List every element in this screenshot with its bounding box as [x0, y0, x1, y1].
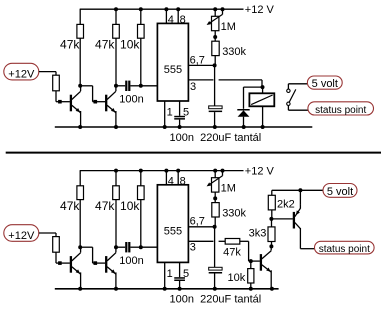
- wire Q4 base: [271, 218, 293, 220]
- wire pin6,7 (top): [188, 64, 214, 66]
- wire pin4 stub (top): [165, 9, 167, 23]
- wire 330k to pin6,7 node (bottom): [214, 217, 216, 227]
- wire rail to pot (top): [214, 9, 216, 16]
- wire Q2 emitter to ground (top): [115, 111, 117, 127]
- wire Q2 collector to 100n (bottom): [116, 246, 125, 248]
- wire 220uF to ground (bottom): [214, 274, 216, 289]
- wire base resistor to Q1 base (top): [56, 91, 70, 102]
- label pin 3 (bottom): [190, 242, 196, 254]
- wire Q2 collector node (top): [115, 86, 117, 87]
- diode flyback D1: [237, 109, 249, 127]
- wire pin4 stub (bottom): [165, 171, 167, 185]
- node status point (top): [308, 102, 374, 116]
- wire node to 555 pin2 (top): [141, 85, 158, 87]
- label +12 V (bottom): [245, 166, 275, 178]
- svg-text:6,7: 6,7: [190, 54, 205, 66]
- resistor 10k (bottom): [138, 171, 145, 248]
- label 10k (bottom): [120, 199, 140, 213]
- label 100n 220uF tantal caption (top): [170, 132, 262, 144]
- capacitor 100n coupling (top): [125, 81, 130, 91]
- junction pin5 ground (bottom): [178, 287, 182, 291]
- label 555 (bottom): [164, 226, 182, 238]
- transistor Q1 (bottom): [70, 249, 81, 275]
- resistor 47k output: [225, 239, 240, 245]
- wire Q2 collector node (bottom): [115, 247, 117, 248]
- junction pin1 ground (bottom): [163, 287, 167, 291]
- wire contact to status point: [288, 106, 308, 111]
- label pin 8 (bottom): [180, 175, 186, 187]
- resistor 330k (top): [212, 41, 219, 55]
- wire node to 555 pin2 (bottom): [141, 246, 158, 248]
- svg-text:5 volt: 5 volt: [312, 78, 338, 90]
- junction rail pot wiper (bottom): [221, 169, 225, 173]
- wire rail to pot (bottom): [214, 171, 216, 178]
- junction rail 47k second (bottom): [114, 169, 118, 173]
- node 5 volt (bottom): [323, 184, 357, 199]
- node +12V (top): [4, 63, 39, 80]
- label 10k pulldown: [228, 272, 246, 284]
- capacitor 100n pin5 (top): [174, 116, 185, 120]
- label pin 8 (top): [180, 14, 186, 26]
- junction rail 47k second (top): [114, 7, 118, 11]
- wire 100n to 10k node (bottom): [130, 246, 140, 248]
- junction 10k bottom (bottom): [139, 245, 143, 249]
- label pin 5 (bottom): [183, 268, 189, 280]
- junction Q4 collector rail: [298, 188, 302, 192]
- label 10k (top): [120, 38, 140, 52]
- resistor 47k first (top): [77, 9, 84, 86]
- label 6,7 (bottom): [190, 216, 205, 228]
- label 330k (top): [222, 46, 246, 58]
- wire relay top link (top): [244, 87, 263, 109]
- wire Q1 emitter to ground (top): [80, 111, 82, 127]
- switch relay contact: [287, 89, 296, 105]
- wire 330k to pin6,7 node (top): [214, 56, 216, 66]
- wire +12V oval to base resistor (bottom): [39, 233, 56, 237]
- wire Q1 collector node (top): [80, 86, 82, 87]
- wire 2k2 to 5volt rail: [272, 190, 323, 195]
- resistor 10k (top): [138, 9, 145, 86]
- junction rail pot wiper (top): [221, 7, 225, 11]
- wire Q4 collector to status point: [300, 228, 314, 249]
- junction diode ground: [242, 125, 246, 129]
- wire Q3 collector to 3k3: [270, 246, 272, 247]
- capacitor 220uF tantal (top): [209, 106, 222, 112]
- svg-text:555: 555: [164, 64, 182, 76]
- wire pot to 330k (top): [214, 31, 216, 42]
- svg-text:330k: 330k: [222, 208, 246, 220]
- junction 2k2 bottom: [269, 217, 273, 221]
- junction 10k Q3 base: [249, 259, 253, 263]
- capacitor 100n pin5 (bottom): [174, 277, 185, 281]
- junction Q2 base (top): [94, 100, 98, 104]
- svg-text:10k: 10k: [120, 38, 140, 52]
- junction relay node (top): [261, 85, 265, 89]
- node status point (bottom): [315, 241, 375, 255]
- wire Q4 emitter up: [299, 190, 301, 204]
- node 5 volt (top): [307, 76, 342, 90]
- wire Q2 collector to 100n (top): [116, 85, 125, 87]
- transistor Q2 (top): [105, 87, 116, 113]
- junction Q3 emitter ground: [270, 287, 274, 291]
- svg-text:1: 1: [167, 268, 173, 280]
- wire Q1 collector to Q2 base (bottom): [80, 247, 105, 263]
- wire 220uF to ground (top): [214, 112, 216, 127]
- divider line: [6, 152, 381, 154]
- svg-text:status point: status point: [319, 244, 370, 255]
- wire timing node down (bottom): [214, 227, 216, 268]
- label 3k3: [249, 228, 267, 240]
- svg-text:5 volt: 5 volt: [327, 186, 353, 198]
- junction rail 10k (top): [139, 7, 143, 11]
- svg-text:+12V: +12V: [8, 69, 35, 81]
- resistor 47k second (top): [113, 9, 120, 86]
- wire pin8 stub (top): [177, 9, 179, 23]
- svg-text:47k: 47k: [95, 38, 115, 52]
- label pin 4 (bottom): [168, 175, 174, 187]
- svg-text:3: 3: [190, 242, 196, 254]
- svg-text:100n: 100n: [119, 255, 143, 267]
- resistor 3k3: [268, 227, 275, 247]
- svg-text:10k: 10k: [120, 199, 140, 213]
- label 1M (bottom): [221, 183, 236, 195]
- wire Q3 emitter ground: [270, 270, 272, 289]
- junction Q1 emitter ground (bottom): [78, 287, 82, 291]
- junction 10k ground: [249, 287, 253, 291]
- wire pin5 stub (bottom): [179, 262, 181, 277]
- label 6,7 (top): [190, 54, 205, 66]
- junction rail pin8 (bottom): [176, 169, 180, 173]
- wire pin6,7 (bottom): [188, 226, 214, 228]
- label 47k second (bottom): [95, 199, 115, 213]
- junction Q2 collector (bottom): [114, 245, 118, 249]
- wire 100n to 10k node (top): [130, 85, 140, 87]
- node +12V (bottom): [4, 225, 39, 242]
- junction Q1 base (bottom): [58, 261, 62, 265]
- resistor 2k2: [268, 195, 275, 219]
- svg-text:status point: status point: [315, 105, 366, 116]
- wire Q2 emitter to ground (bottom): [115, 272, 117, 288]
- svg-text:8: 8: [180, 175, 186, 187]
- svg-text:47k: 47k: [60, 38, 80, 52]
- svg-text:330k: 330k: [222, 46, 246, 58]
- label 330k (bottom): [222, 208, 246, 220]
- junction pin6,7 (bottom): [213, 225, 217, 229]
- junction Q1 base (top): [58, 100, 62, 104]
- op-amp/IC 555 (top): [157, 23, 188, 101]
- wire pot to 330k (bottom): [214, 192, 216, 203]
- junction Q2 base (bottom): [94, 261, 98, 265]
- capacitor 100n coupling (bottom): [125, 242, 130, 252]
- wire +12V rail (top): [80, 8, 244, 10]
- svg-text:10k: 10k: [228, 272, 246, 284]
- wire +12V oval to base resistor (top): [39, 72, 56, 76]
- svg-text:100n: 100n: [119, 94, 143, 106]
- wire base resistor to Q1 base (bottom): [56, 252, 70, 263]
- transistor Q4 (PNP): [293, 204, 301, 228]
- capacitor 220uF tantal (bottom): [209, 267, 222, 273]
- transistor Q2 (bottom): [105, 249, 116, 275]
- junction rail pot (bottom): [213, 169, 217, 173]
- svg-text:47k: 47k: [223, 247, 241, 259]
- transistor Q1 (top): [70, 87, 81, 113]
- resistor 10k pulldown: [248, 261, 254, 289]
- svg-text:+12V: +12V: [8, 230, 35, 242]
- junction Q2 emitter ground (top): [114, 125, 118, 129]
- label +12 V (top): [245, 4, 275, 16]
- wire 47k to Q3 base: [240, 241, 260, 261]
- svg-text:1M: 1M: [221, 21, 236, 33]
- svg-text:4: 4: [168, 175, 174, 187]
- label 2k2: [277, 199, 295, 211]
- resistor 47k second (bottom): [113, 171, 120, 248]
- junction Q2 emitter ground (bottom): [114, 287, 118, 291]
- svg-text:6,7: 6,7: [190, 216, 205, 228]
- svg-text:+12 V: +12 V: [245, 4, 275, 16]
- junction rail pin4 (top): [164, 7, 168, 11]
- junction pot 330k (top): [213, 35, 217, 39]
- junction Q3 collector: [269, 244, 273, 248]
- wire pin5 cap to ground (bottom): [179, 281, 181, 289]
- potentiometer 1M (bottom): [207, 171, 223, 192]
- svg-text:555: 555: [164, 226, 182, 238]
- junction 220uF ground (top): [213, 125, 217, 129]
- svg-text:47k: 47k: [95, 199, 115, 213]
- svg-text:3: 3: [190, 81, 196, 93]
- wire pin5 cap to ground (top): [179, 120, 181, 127]
- resistor 47k first (bottom): [77, 171, 84, 248]
- junction Q1 emitter ground (top): [78, 125, 82, 129]
- wire Q1 collector node (bottom): [80, 247, 82, 248]
- junction Q1 collector (top): [78, 84, 82, 88]
- junction 220uF ground (bottom): [213, 287, 217, 291]
- wire pin1 stub (top): [164, 101, 166, 127]
- label 47k output: [223, 247, 241, 259]
- op-amp/IC 555 (bottom): [157, 185, 188, 263]
- wire Q1 collector to Q2 base (top): [80, 86, 105, 102]
- resistor base-feed (top): [53, 75, 60, 91]
- label 47k first (bottom): [60, 199, 80, 213]
- junction rail 10k (bottom): [139, 169, 143, 173]
- resistor 330k (bottom): [212, 203, 219, 217]
- wire ground rail (top): [55, 126, 313, 128]
- wire contact to 5 volt: [288, 84, 307, 89]
- label 555 (top): [164, 64, 182, 76]
- svg-text:47k: 47k: [60, 199, 80, 213]
- junction pot 330k (bottom): [213, 196, 217, 200]
- relay RL1 coil: [249, 87, 274, 127]
- wire Q1 emitter to ground (bottom): [80, 272, 82, 288]
- svg-text:2k2: 2k2: [277, 199, 295, 211]
- wire 3k3 to 2k2 node: [271, 219, 273, 227]
- junction rail pot (top): [213, 7, 217, 11]
- junction Q2 collector (top): [114, 84, 118, 88]
- label 1M (top): [221, 21, 236, 33]
- label pin 1 (top): [167, 106, 173, 118]
- svg-text:+12 V: +12 V: [245, 166, 275, 178]
- junction Q1 collector (bottom): [78, 245, 82, 249]
- svg-text:8: 8: [180, 14, 186, 26]
- potentiometer 1M (top): [207, 9, 223, 31]
- junction rail pin8 (top): [176, 7, 180, 11]
- resistor base-feed (bottom): [53, 237, 60, 253]
- svg-text:4: 4: [168, 14, 174, 26]
- svg-text:1M: 1M: [221, 183, 236, 195]
- junction 10k bottom (top): [139, 84, 143, 88]
- wire pin3 output (top): [188, 80, 262, 87]
- junction rail pin4 (bottom): [164, 169, 168, 173]
- label 100n coupling (top): [119, 94, 143, 106]
- junction relay ground: [261, 125, 265, 129]
- wire pin8 stub (bottom): [177, 171, 179, 185]
- svg-text:100n 220uF tantál: 100n 220uF tantál: [170, 293, 262, 305]
- label pin 5 (top): [183, 106, 189, 118]
- transistor Q3: [260, 247, 271, 273]
- wire pin3 output (bottom): [188, 240, 225, 242]
- svg-text:100n 220uF tantál: 100n 220uF tantál: [170, 132, 262, 144]
- label pin 3 (top): [190, 81, 196, 93]
- junction pin1 ground (top): [163, 125, 167, 129]
- label 47k first (top): [60, 38, 80, 52]
- wire pin1 stub (bottom): [164, 262, 166, 288]
- junction pin6,7 (top): [213, 63, 217, 67]
- svg-text:3k3: 3k3: [249, 228, 267, 240]
- wire pin5 stub (top): [179, 101, 181, 116]
- label pin 1 (bottom): [167, 268, 173, 280]
- label 100n coupling (bottom): [119, 255, 143, 267]
- label 100n 220uF tantal caption (bottom): [170, 293, 262, 305]
- label 47k second (top): [95, 38, 115, 52]
- wire +12V rail (bottom): [80, 170, 244, 172]
- wire timing node down (top): [214, 65, 216, 107]
- label pin 4 (top): [168, 14, 174, 26]
- svg-text:1: 1: [167, 106, 173, 118]
- wire ground rail (bottom): [55, 288, 279, 290]
- junction pin5 ground (top): [178, 125, 182, 129]
